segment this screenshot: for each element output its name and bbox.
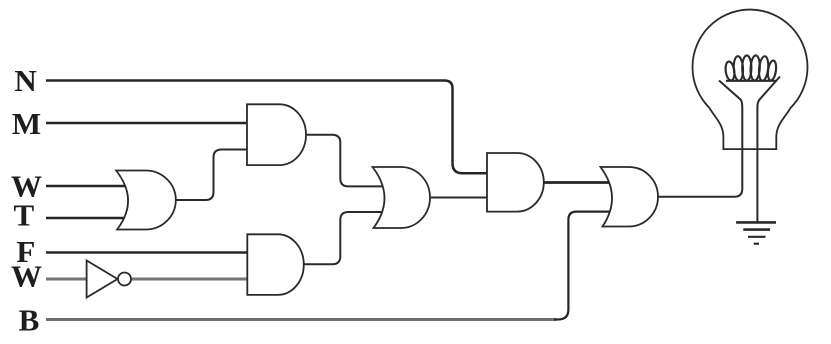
svg-text:N: N (14, 63, 36, 98)
svg-text:M: M (12, 106, 41, 141)
svg-text:W: W (11, 259, 42, 294)
svg-text:B: B (19, 302, 40, 337)
svg-text:T: T (14, 198, 35, 233)
